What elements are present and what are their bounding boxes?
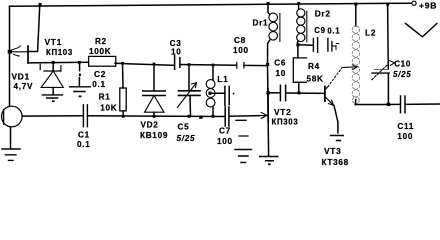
transistor VT3 emitter with arrow (325, 97, 334, 106)
wire C9 right stub (331, 41, 333, 51)
svg-text:10: 10 (276, 69, 287, 78)
node VD2 bottom junction (153, 115, 156, 118)
wire lower bus C7 to VT2 gate (229, 115, 260, 118)
wire R4 top lead (297, 46, 299, 58)
svg-text:10K: 10K (100, 103, 117, 112)
node C10/C11 junction (387, 103, 390, 106)
zener diode VD1 (52, 62, 54, 71)
svg-text:C8: C8 (234, 36, 246, 45)
svg-text:КТ368: КТ368 (322, 158, 349, 167)
node Dr2/C9/R4 junction (296, 43, 299, 46)
wire mic to ground (10, 127, 12, 149)
wire upper bus segment C (180, 64, 237, 67)
svg-text:L1: L1 (217, 74, 228, 84)
node VT1 gate junction (8, 50, 12, 54)
node R1 top junction (121, 62, 124, 65)
transistor VT3 base bar (324, 87, 326, 102)
transistor VT1 channel bar (27, 46, 29, 63)
wire L2 bottom to C11 (355, 103, 400, 105)
svg-text:КП103: КП103 (46, 48, 73, 57)
trimmer capacitor C5 (188, 65, 190, 91)
capacitor C9 plates (313, 38, 328, 53)
node L2 top junction (354, 3, 357, 6)
svg-text:VT2: VT2 (274, 107, 291, 117)
node VD2 top junction (153, 63, 156, 66)
node VD1 top junction (52, 61, 55, 64)
svg-text:100: 100 (397, 132, 413, 141)
ground for VD1 (42, 95, 62, 98)
svg-text:C1: C1 (78, 131, 90, 140)
svg-text:VT3: VT3 (324, 146, 341, 156)
capacitor C1 plates (83, 105, 87, 127)
svg-text:R2: R2 (95, 37, 107, 46)
node upper bus end junction (266, 63, 269, 66)
svg-text:C5: C5 (178, 123, 190, 132)
capacitor C6b coupling plates (280, 85, 285, 100)
node junction on rail for VT1 (39, 3, 42, 6)
wire upper bus segment B (115, 63, 174, 65)
svg-text:VD2: VD2 (141, 121, 159, 130)
svg-text:L2: L2 (365, 28, 376, 38)
node C2 top junction (78, 61, 81, 64)
capacitor C11 plates (401, 96, 406, 113)
node VT2 drain junction (266, 91, 269, 94)
antenna symbol (406, 24, 437, 37)
choke Dr1 (267, 2, 270, 5)
ground for microphone (2, 149, 20, 160)
wire C10 upper lead (387, 4, 390, 69)
transistor VT2 channel bar (267, 89, 269, 122)
ground for C2 (70, 87, 91, 92)
node L1 tap (208, 92, 211, 95)
capacitor C7 plates (225, 107, 229, 126)
wire VT2 drain to C8cap (268, 92, 280, 94)
node C5 bottom junction (188, 115, 191, 118)
choke Dr1 core line (279, 14, 281, 42)
choke Dr2 core line (306, 11, 308, 42)
node R4 bottom junction (297, 91, 300, 94)
svg-text:58K: 58K (307, 75, 324, 84)
trimmer capacitor C10 plates (372, 72, 389, 74)
svg-text:100: 100 (217, 137, 233, 146)
node L1 bottom junction (212, 115, 215, 118)
svg-text:0.1: 0.1 (92, 80, 105, 89)
varicap VD2 (153, 64, 155, 91)
wire collector to L2 tap (342, 66, 356, 69)
node speck right of C6 (233, 93, 235, 95)
wire upper bus segment D (244, 64, 268, 66)
wire VT1 drain to rail (28, 5, 40, 52)
transistor VT1 gate arrow (10, 51, 28, 53)
node C10 top junction (386, 3, 389, 6)
wire L1 tap to C6 (210, 92, 225, 94)
svg-text:VT1: VT1 (45, 37, 62, 47)
inductor L2 (355, 4, 357, 26)
choke Dr2 (297, 2, 300, 5)
svg-text:100K: 100K (89, 47, 111, 56)
node C5 top junction (188, 63, 191, 66)
wire Dr1/bus to VT2 drain (267, 66, 269, 93)
wire upper bus segment A (28, 61, 88, 64)
capacitor C2 to ground (79, 63, 81, 71)
wire C11 to edge (405, 103, 440, 105)
wire R1 top lead (122, 63, 125, 88)
transistor VT2 gate arrow (260, 113, 267, 119)
trimmer C10 arrow (372, 64, 389, 80)
svg-text:0.1: 0.1 (327, 26, 340, 35)
wire lower bus mic to C1 (22, 115, 83, 117)
capacitor C3 plates (175, 56, 180, 70)
svg-text:КВ109: КВ109 (140, 131, 168, 140)
node L1 top junction (212, 64, 215, 67)
wire C10 lower lead (387, 73, 389, 104)
ground for VT2 (260, 157, 278, 161)
svg-text:C2: C2 (94, 69, 106, 79)
wire left rail (9, 6, 11, 106)
node stray junction on lower bus (199, 116, 202, 119)
resistor R4 box (293, 58, 306, 82)
resistor R2 box (89, 56, 116, 66)
svg-text:5/25: 5/25 (393, 70, 411, 79)
svg-text:КП303: КП303 (272, 118, 299, 127)
resistor R1 box (120, 88, 126, 111)
inductor L1 (212, 65, 214, 80)
svg-text:100: 100 (233, 46, 249, 55)
terminal +9V open circle (412, 1, 416, 5)
transistor VT3 collector diagonal (325, 86, 329, 90)
svg-text:Dr1: Dr1 (253, 19, 269, 28)
wire cap to VT3 base (286, 92, 325, 94)
wire R4 bottom lead (298, 82, 300, 93)
microphone BM1 circle (2, 106, 23, 127)
svg-text:C11: C11 (397, 122, 414, 131)
svg-text:4,7V: 4,7V (14, 82, 34, 91)
wire VT2 source to ground (267, 122, 269, 156)
svg-text:+9В: +9В (419, 0, 437, 10)
svg-text:C6: C6 (274, 59, 286, 68)
wire top supply rail (10, 3, 412, 6)
svg-text:Dr2: Dr2 (315, 8, 331, 18)
svg-text:R4: R4 (308, 62, 320, 71)
svg-text:VD1: VD1 (12, 72, 30, 82)
svg-text:10: 10 (171, 47, 182, 56)
svg-text:C10: C10 (394, 59, 411, 68)
wire Dr2 node to C9 (298, 44, 313, 46)
microphone diaphragm bar (3, 110, 5, 125)
svg-text:5/25: 5/25 (177, 134, 196, 143)
svg-text:C7: C7 (219, 126, 231, 135)
wire R1 bottom lead (122, 111, 124, 116)
capacitor C8 plates (237, 62, 244, 68)
ground fading below gate wire (236, 120, 248, 136)
node R1 bottom junction (122, 115, 125, 118)
capacitor C6 plates (225, 86, 229, 105)
svg-text:0.1: 0.1 (77, 140, 90, 149)
svg-text:C9: C9 (314, 26, 325, 35)
ground for VT3 (331, 135, 344, 137)
wire lower bus C1 to C7 (88, 115, 225, 118)
svg-text:R1: R1 (99, 93, 111, 102)
